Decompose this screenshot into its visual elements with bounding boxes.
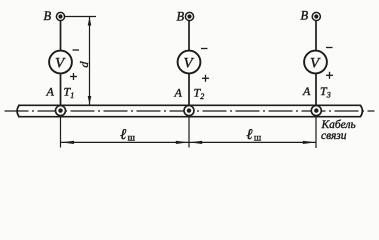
svg-text:ℓ: ℓ bbox=[120, 127, 126, 143]
svg-text:В: В bbox=[177, 10, 185, 24]
svg-text:связи: связи bbox=[321, 130, 347, 142]
svg-text:ℓ: ℓ bbox=[246, 127, 252, 143]
svg-text:A: A bbox=[174, 86, 183, 100]
svg-text:В: В bbox=[301, 9, 309, 23]
svg-text:A: A bbox=[46, 85, 55, 99]
svg-text:В: В bbox=[44, 9, 52, 23]
svg-text:ш: ш bbox=[254, 134, 262, 144]
svg-text:ш: ш bbox=[128, 134, 136, 144]
svg-text:A: A bbox=[302, 84, 311, 98]
